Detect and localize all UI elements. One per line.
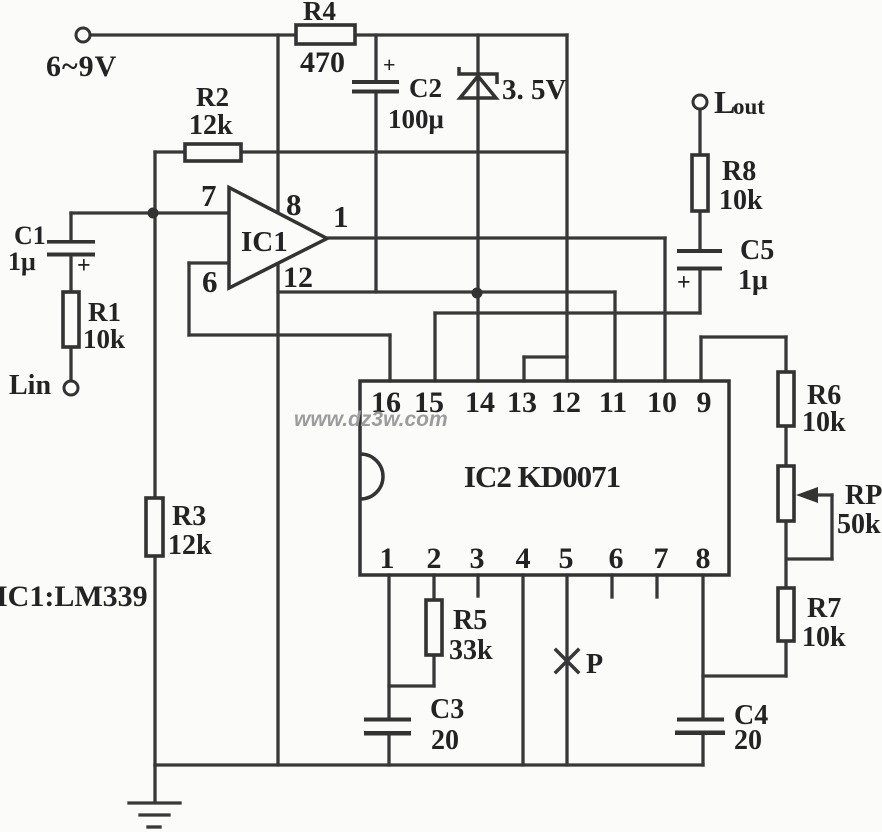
svg-text:8: 8 — [696, 542, 711, 575]
svg-text:C1: C1 — [14, 221, 46, 250]
svg-text:50k: 50k — [837, 509, 881, 540]
svg-text:1: 1 — [333, 199, 349, 234]
svg-text:9: 9 — [697, 386, 712, 419]
svg-text:R8: R8 — [722, 156, 756, 187]
svg-text:7: 7 — [654, 542, 669, 575]
svg-text:12: 12 — [551, 386, 581, 419]
svg-text:12: 12 — [283, 261, 313, 294]
svg-text:12k: 12k — [189, 110, 233, 141]
svg-text:6~9V: 6~9V — [46, 50, 117, 83]
svg-text:out: out — [733, 94, 765, 119]
svg-text:3. 5V: 3. 5V — [502, 74, 567, 106]
svg-text:1: 1 — [380, 542, 395, 575]
svg-text:10k: 10k — [83, 324, 125, 354]
svg-text:11: 11 — [599, 386, 627, 419]
svg-text:R5: R5 — [453, 605, 487, 636]
svg-text:IC1: IC1 — [241, 226, 288, 258]
svg-text:IC1:LM339: IC1:LM339 — [0, 580, 148, 613]
svg-text:Lin: Lin — [9, 370, 51, 401]
svg-text:3: 3 — [470, 542, 485, 575]
svg-text:14: 14 — [465, 386, 495, 419]
svg-text:R2: R2 — [196, 82, 229, 112]
svg-text:12k: 12k — [168, 530, 212, 561]
svg-text:+: + — [677, 270, 691, 296]
svg-text:www.dz3w.com: www.dz3w.com — [294, 408, 448, 431]
svg-text:R4: R4 — [303, 0, 336, 26]
svg-text:100μ: 100μ — [388, 104, 444, 134]
svg-text:IC2 KD0071: IC2 KD0071 — [464, 459, 620, 494]
svg-text:1μ: 1μ — [8, 247, 36, 276]
svg-text:13: 13 — [507, 386, 537, 419]
svg-text:C5: C5 — [740, 235, 774, 266]
svg-text:10k: 10k — [802, 622, 846, 653]
svg-text:R7: R7 — [807, 593, 841, 624]
svg-text:33k: 33k — [449, 635, 493, 666]
svg-text:6: 6 — [202, 264, 218, 299]
svg-text:20: 20 — [734, 725, 762, 756]
svg-text:2: 2 — [427, 542, 442, 575]
svg-text:1μ: 1μ — [738, 265, 768, 296]
svg-text:20: 20 — [431, 725, 459, 756]
svg-text:RP: RP — [845, 480, 882, 511]
svg-text:10k: 10k — [719, 185, 763, 216]
svg-text:P: P — [586, 649, 603, 680]
svg-text:R3: R3 — [172, 501, 206, 532]
svg-text:R1: R1 — [88, 297, 121, 327]
svg-text:470: 470 — [300, 46, 345, 79]
svg-text:5: 5 — [559, 542, 574, 575]
svg-text:C3: C3 — [430, 694, 464, 725]
svg-text:+: + — [77, 253, 91, 279]
svg-text:+: + — [383, 52, 396, 77]
svg-text:6: 6 — [609, 542, 624, 575]
svg-text:10: 10 — [647, 386, 677, 419]
svg-text:4: 4 — [516, 542, 531, 575]
svg-text:7: 7 — [201, 178, 217, 213]
svg-text:8: 8 — [286, 187, 302, 222]
svg-text:10k: 10k — [802, 407, 846, 438]
svg-text:C2: C2 — [409, 73, 442, 103]
